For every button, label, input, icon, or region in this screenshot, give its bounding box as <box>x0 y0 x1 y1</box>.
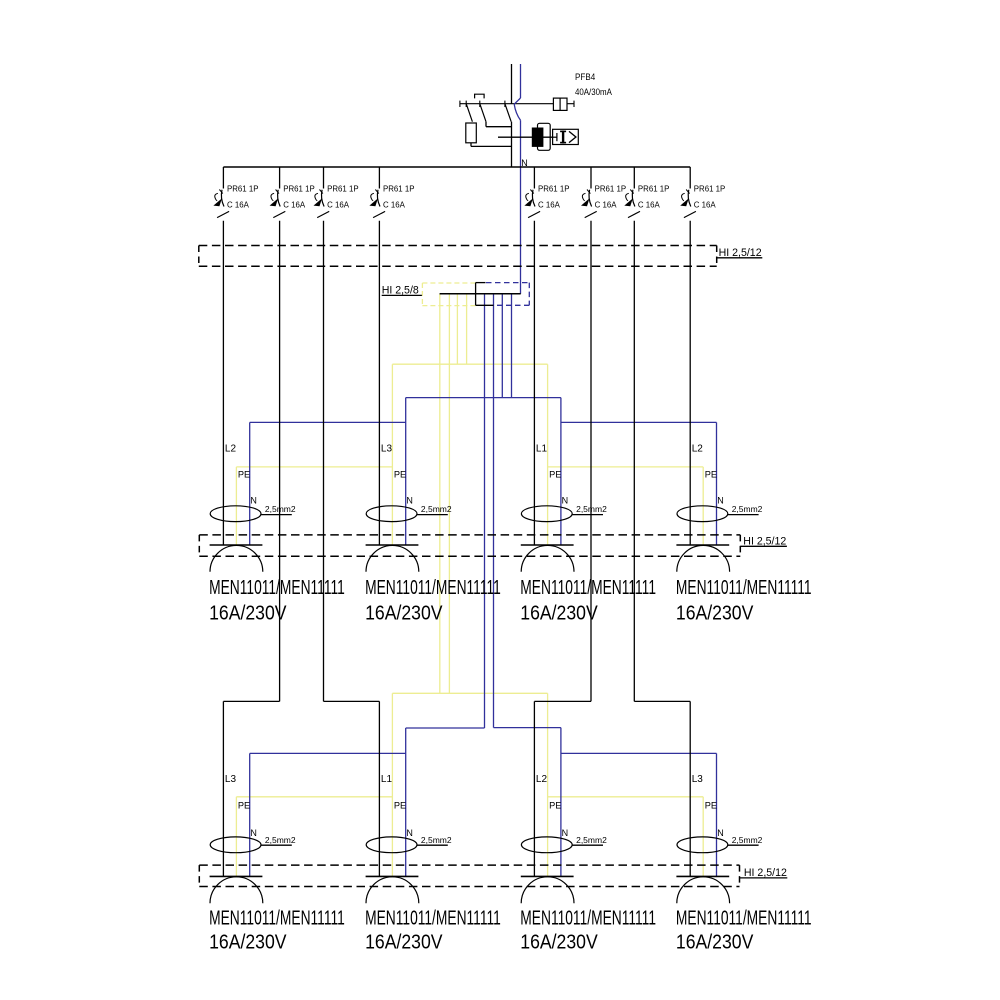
svg-text:PE: PE <box>238 470 250 480</box>
svg-text:N: N <box>406 496 413 506</box>
svg-text:MEN11011/MEN11111: MEN11011/MEN11111 <box>676 575 812 598</box>
svg-text:MEN11011/MEN11111: MEN11011/MEN11111 <box>209 575 345 598</box>
svg-text:PR61 1P: PR61 1P <box>638 184 670 193</box>
svg-text:PR61 1P: PR61 1P <box>383 184 415 193</box>
svg-text:PE: PE <box>549 801 561 811</box>
svg-text:PFB4: PFB4 <box>575 71 595 82</box>
svg-text:MEN11011/MEN11111: MEN11011/MEN11111 <box>209 906 345 929</box>
svg-text:L3: L3 <box>225 774 237 785</box>
svg-text:C 16A: C 16A <box>638 200 660 209</box>
svg-text:N: N <box>717 496 724 506</box>
svg-text:MEN11011/MEN11111: MEN11011/MEN11111 <box>365 575 501 598</box>
svg-text:L2: L2 <box>225 444 237 455</box>
svg-text:L3: L3 <box>381 444 393 455</box>
svg-text:16A/230V: 16A/230V <box>676 601 754 623</box>
svg-text:MEN11011/MEN11111: MEN11011/MEN11111 <box>365 906 501 929</box>
svg-text:C 16A: C 16A <box>538 200 560 209</box>
svg-text:16A/230V: 16A/230V <box>365 601 443 623</box>
svg-text:16A/230V: 16A/230V <box>209 930 287 952</box>
svg-text:PR61 1P: PR61 1P <box>227 184 259 193</box>
svg-text:2,5mm2: 2,5mm2 <box>576 835 607 845</box>
svg-text:C 16A: C 16A <box>227 200 249 209</box>
svg-text:L2: L2 <box>692 444 704 455</box>
svg-text:L3: L3 <box>692 774 704 785</box>
svg-text:PE: PE <box>705 470 717 480</box>
svg-text:HI 2,5/12: HI 2,5/12 <box>743 535 786 547</box>
svg-text:2,5mm2: 2,5mm2 <box>265 835 296 845</box>
svg-text:PE: PE <box>394 801 406 811</box>
svg-text:MEN11011/MEN11111: MEN11011/MEN11111 <box>520 906 656 929</box>
svg-text:PE: PE <box>705 801 717 811</box>
svg-text:N: N <box>406 828 413 838</box>
svg-text:PE: PE <box>394 470 406 480</box>
svg-text:2,5mm2: 2,5mm2 <box>732 504 763 514</box>
svg-text:HI 2,5/12: HI 2,5/12 <box>719 247 762 259</box>
svg-text:L1: L1 <box>536 444 548 455</box>
svg-text:2,5mm2: 2,5mm2 <box>421 504 452 514</box>
svg-text:C 16A: C 16A <box>595 200 617 209</box>
svg-text:16A/230V: 16A/230V <box>209 601 287 623</box>
svg-text:2,5mm2: 2,5mm2 <box>265 504 296 514</box>
svg-text:PR61 1P: PR61 1P <box>538 184 570 193</box>
svg-text:PR61 1P: PR61 1P <box>327 184 359 193</box>
svg-text:C 16A: C 16A <box>694 200 716 209</box>
svg-text:MEN11011/MEN11111: MEN11011/MEN11111 <box>676 906 812 929</box>
svg-text:PR61 1P: PR61 1P <box>595 184 627 193</box>
svg-text:C 16A: C 16A <box>327 200 349 209</box>
svg-text:N: N <box>250 828 257 838</box>
svg-text:N: N <box>562 828 569 838</box>
svg-text:N: N <box>250 496 257 506</box>
svg-text:16A/230V: 16A/230V <box>520 930 598 952</box>
svg-text:PR61 1P: PR61 1P <box>283 184 315 193</box>
svg-text:PE: PE <box>238 801 250 811</box>
svg-text:PE: PE <box>549 470 561 480</box>
svg-text:HI 2,5/8: HI 2,5/8 <box>382 285 419 297</box>
svg-text:16A/230V: 16A/230V <box>365 930 443 952</box>
svg-text:C 16A: C 16A <box>283 200 305 209</box>
svg-text:16A/230V: 16A/230V <box>676 930 754 952</box>
svg-text:N: N <box>521 158 528 168</box>
svg-text:2,5mm2: 2,5mm2 <box>576 504 607 514</box>
svg-text:HI 2,5/12: HI 2,5/12 <box>744 867 787 879</box>
svg-text:MEN11011/MEN11111: MEN11011/MEN11111 <box>520 575 656 598</box>
svg-text:L2: L2 <box>536 774 548 785</box>
svg-text:C 16A: C 16A <box>383 200 405 209</box>
svg-text:40A/30mA: 40A/30mA <box>575 86 612 97</box>
svg-text:N: N <box>717 828 724 838</box>
svg-text:2,5mm2: 2,5mm2 <box>421 835 452 845</box>
svg-text:PR61 1P: PR61 1P <box>694 184 726 193</box>
svg-text:N: N <box>562 496 569 506</box>
svg-text:16A/230V: 16A/230V <box>520 601 598 623</box>
svg-text:2,5mm2: 2,5mm2 <box>732 835 763 845</box>
svg-text:L1: L1 <box>381 774 393 785</box>
